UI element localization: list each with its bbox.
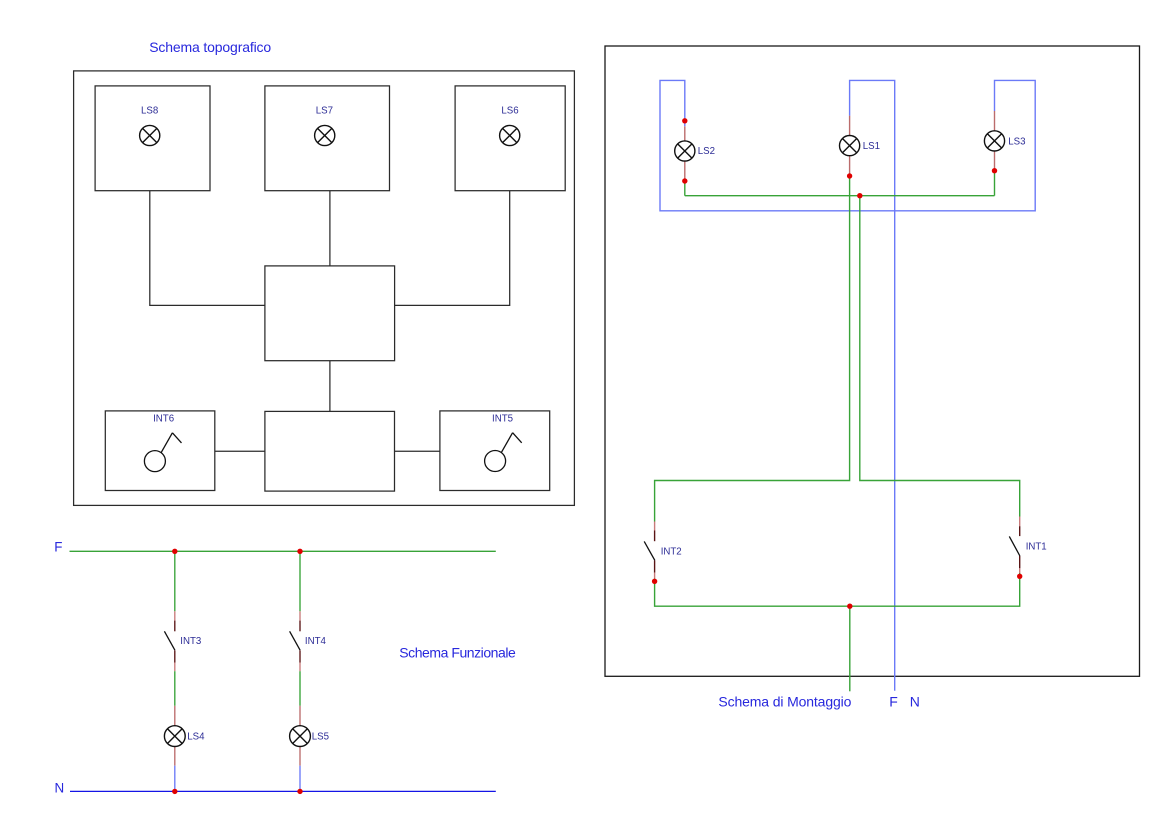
svg-text:LS6: LS6 bbox=[501, 106, 518, 117]
svg-text:INT5: INT5 bbox=[492, 413, 513, 424]
svg-text:F: F bbox=[54, 539, 62, 554]
svg-text:LS7: LS7 bbox=[316, 106, 333, 117]
svg-text:LS4: LS4 bbox=[187, 732, 205, 743]
svg-text:INT6: INT6 bbox=[153, 413, 174, 424]
svg-text:LS8: LS8 bbox=[141, 106, 158, 117]
svg-text:N: N bbox=[910, 694, 920, 710]
svg-text:INT4: INT4 bbox=[305, 636, 327, 647]
svg-text:Schema Funzionale: Schema Funzionale bbox=[399, 644, 516, 660]
svg-text:Schema di Montaggio: Schema di Montaggio bbox=[718, 694, 851, 710]
svg-text:INT1: INT1 bbox=[1026, 541, 1047, 552]
svg-text:LS3: LS3 bbox=[1008, 136, 1025, 147]
svg-text:Schema topografico: Schema topografico bbox=[149, 39, 271, 55]
svg-text:LS5: LS5 bbox=[312, 732, 329, 743]
svg-text:LS2: LS2 bbox=[698, 146, 715, 157]
svg-text:LS1: LS1 bbox=[863, 141, 880, 152]
svg-text:F: F bbox=[889, 694, 898, 710]
svg-text:INT2: INT2 bbox=[661, 546, 682, 557]
svg-text:INT3: INT3 bbox=[180, 636, 201, 647]
svg-text:N: N bbox=[55, 780, 65, 795]
